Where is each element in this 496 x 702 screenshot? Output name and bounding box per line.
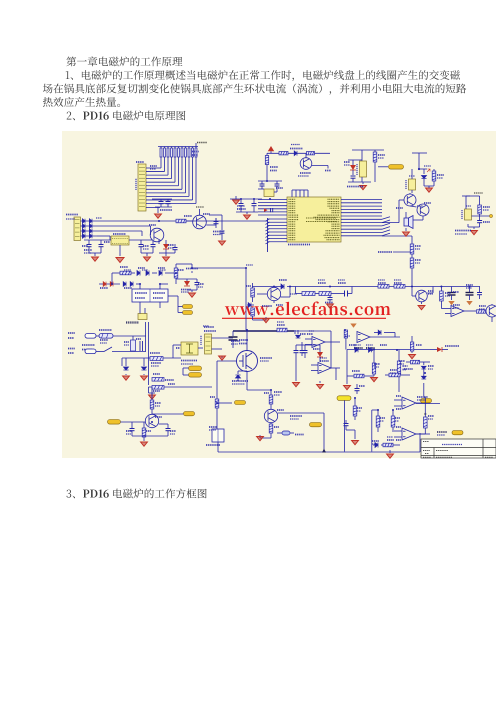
label R42 [395,417,400,419]
label buzzer U3 [405,180,407,189]
MOV RV1 [131,340,136,351]
connector CN2 [138,164,146,211]
diode D3 1N4148 [294,151,297,156]
capacitor C16 [221,215,223,230]
label Q7 blue [262,305,272,307]
transformer T1 vertical bars [140,341,143,351]
diode D13 [131,272,135,274]
capacitor C27 [356,384,358,388]
label D16 [100,287,108,289]
label U6D blue [320,360,329,362]
label D23 [279,279,287,281]
wire K1 extension to MCU bus [189,220,268,222]
label DB1 plus [176,347,180,349]
label C17 [198,283,204,285]
MCU U1 HT46R12A [287,197,341,242]
label R13 [184,215,192,217]
wire top net [347,349,366,351]
title block texts [423,441,429,443]
capacitor C20 electrolytic [451,287,453,293]
label C27 [359,385,365,387]
resistor R40 [353,406,357,416]
transistor Q5 [150,228,164,242]
capacitor C15 [215,218,217,221]
label R25 [394,282,402,284]
wire sense row [315,286,480,288]
label FGA25N120 [232,380,248,382]
ground G15 [143,374,145,375]
IC U2 78L05 [111,236,129,245]
label pin numbers [307,333,313,335]
label C9 [483,221,490,223]
wire bus +300V bold [233,330,294,332]
label D26 [453,291,459,293]
connector J2 pill [85,349,96,354]
wire top rail [267,152,330,154]
value labels batch [291,144,300,146]
diode D28 [374,332,378,334]
label CN3 [66,214,78,216]
document subheading 3 [67,489,207,499]
resistor R43 [383,443,393,447]
label R16 [178,269,184,271]
label D4 [344,161,350,163]
wire Q6 collector [199,209,201,215]
wire net K3 [97,230,142,232]
transistor Q1 [300,158,312,170]
wire Q7 emitter [273,301,275,303]
wires reg cluster [467,224,469,227]
diode D21 [121,358,123,366]
wire +18V rail right [192,267,246,269]
capacitor C11 [100,240,102,244]
buzzer BZ1 [404,216,413,229]
label C22 [231,340,240,342]
ground G24 [260,437,271,439]
resistor R23 [319,292,331,296]
resistor R6 horizontal [307,152,315,155]
label comb RN1 [192,151,199,153]
capacitor C6 [253,199,255,203]
capacitor C7 [352,170,354,175]
pin stub diagonals [382,217,390,220]
IC U4 78L05 [465,209,472,220]
label Q1 [300,172,311,174]
MCU upper left pins [258,199,287,201]
resistor R19 [152,386,164,390]
capacitor C25 [131,422,133,428]
wire top rail T cluster [352,149,384,151]
ground G17 [253,319,266,321]
ground G19b orange [448,301,454,305]
wire gate network [217,402,232,404]
label C29 [428,415,434,417]
wire MCU pin to buzzer [382,222,399,224]
label U6A [453,304,460,306]
wire +V to buzzer cluster [418,153,420,169]
ground G19c orange [466,301,472,305]
label R38 [352,370,360,372]
label CN2 top [136,161,144,163]
label X1 [276,187,283,189]
label CN5 [200,335,202,345]
red diode D35 [437,347,442,352]
red diode D39 [317,352,323,357]
diode D23 on bus [252,286,281,288]
label T-sense [378,251,392,253]
label R26 [445,292,451,294]
op-amp U6A [451,306,464,317]
wire crystal junction) [266,180,268,182]
transistor Q3 [417,204,429,216]
MCU right pins [341,199,382,201]
label CN2 side [135,178,137,190]
ground G31 [319,381,321,383]
wire Q12 up [151,387,153,393]
ground G32 [409,355,416,359]
ground G9 under U2 [119,245,121,256]
pill label P5 [189,373,202,378]
pill label P3 [183,311,193,315]
ground G13 [187,289,197,291]
label U7A pins [396,395,401,397]
document paragraph line 3 [43,97,120,107]
MCU top pins [291,190,293,197]
label LM339 [417,396,428,398]
resistor R33 [269,424,273,433]
label D36 [428,365,434,367]
diode D24 D25 [248,303,251,308]
capacitor C30 [295,345,297,350]
vertical loop wire [371,410,373,452]
pill label P11 [452,431,463,435]
label D12 [168,244,174,246]
diode D36 [423,362,425,365]
document heading line 1 [66,56,182,66]
label +5V [197,142,207,144]
zener D12 red [163,244,169,249]
wire vertical x331 [330,331,332,368]
label X2 side [356,164,358,175]
title block table [421,439,496,458]
bridge rectifier DB1 [181,342,198,355]
label R35 [146,430,151,432]
wire to title block [419,433,421,452]
label C12 [143,245,149,247]
label Q5 [149,224,156,226]
ground G4 [362,182,364,184]
resistor R44 [477,310,486,313]
diode D4 red [350,165,356,170]
capacitor C9 [479,214,481,220]
label R41 [380,417,385,419]
label C10 [82,245,88,247]
label U4 side [461,210,463,219]
ground G25 [141,442,148,446]
resistor R4 vertical [265,156,268,165]
resistor R21 [251,308,255,316]
ground G14 under D21 [125,374,127,375]
wire +5V right top [465,196,467,205]
label Q2 [396,207,403,209]
crystal X1 [258,180,282,182]
wires buzzer cluster [423,183,425,186]
label C15 blue [213,231,224,233]
label F1 value [100,339,108,341]
label out blue [290,415,302,417]
label R20 [246,285,251,287]
label L net [168,383,175,385]
resistor R45 feedback [424,417,428,428]
wires up to T203 [145,322,147,352]
ground G7 [473,227,475,229]
transistor Q6 [193,215,207,229]
wire out right [472,215,493,217]
pill label P2 [183,305,193,309]
label R27 [415,245,421,247]
label R9v [437,174,444,176]
resistor R34 vertical [150,400,154,409]
connector J1 pill [85,334,96,339]
label R18 [153,373,160,375]
long wire net K1 [97,220,189,222]
label CT1 [209,426,217,428]
capacitor C28 [345,420,347,423]
capacitor C2 under CN2 [167,199,169,201]
pill label P8 [108,420,121,425]
junction dots [158,220,160,222]
ground G12 [221,238,223,240]
wires from U5 [139,284,141,289]
label R34 [155,402,161,404]
ground G8 [94,253,96,256]
wire comparators net [416,403,440,405]
label NTC value [151,362,161,364]
wires CN2 to RN1 staircase [160,157,162,168]
diode D18 D19 blue [123,282,126,287]
wire U6D feedback [335,368,337,380]
diode D20 down red [186,279,188,284]
label RV1 [124,341,129,343]
pill label P1 [389,165,404,170]
capacitor C13 [152,240,154,244]
transistor Q2 [404,194,416,206]
resistor R32 [269,395,273,404]
label U6B [313,348,320,350]
diode D38 [375,442,378,447]
wire divider junction [411,251,413,253]
resistor R5 horizontal [279,152,288,155]
lower branch loop [295,287,297,294]
wire R7 to block [374,166,376,182]
label Q9 [428,290,434,292]
resistor R27 [410,244,414,254]
long wire net K2 [97,225,151,227]
resistor R7 [374,150,376,152]
capacitor C21 [479,287,481,293]
label R19 [153,390,160,392]
diode D31 D32 [355,347,358,352]
label +5V right [474,192,483,194]
resistor R46 vertical [410,342,413,351]
wire bottom bus [217,442,219,452]
capacitor C32 under D27 [301,342,303,350]
ground G23 top [221,356,223,358]
capacitor C18b hbars [345,291,348,297]
fuse F1 [99,334,113,339]
capacitor C20b electrolytic [469,287,471,293]
switch SW1 [96,351,104,353]
IC U3 driver [409,179,416,190]
capacitor C5 electrolytic [230,198,262,200]
wire IGBT emitter down [246,372,248,391]
ground G30 [293,383,300,387]
capacitor C24 pill blue [282,431,290,435]
IC X2 ceramic resonator [360,161,367,177]
label R7v [378,154,385,156]
resistor R35 [142,428,146,437]
capacitor C14 [174,244,176,247]
document paragraph line 2 [43,84,466,95]
ground G10 [146,253,148,256]
capacitor C26 [167,424,169,428]
resistor network RN1 [160,148,162,157]
ground G2 red arrow [235,196,237,199]
resistor R29 [277,328,287,332]
wire Q11 to out [278,412,324,414]
transistor Q11 [264,409,277,422]
label C1 C2 [160,209,172,211]
op-amp U6C [357,332,370,343]
wires around U2 [84,239,111,241]
label +18V [186,268,198,270]
watermark underline [222,317,386,319]
diode D37 [421,376,426,379]
IGBT Q10 [237,351,258,372]
resistor R15 [112,272,120,274]
diode D27 [294,330,296,334]
transistor Q12 [145,414,158,427]
label U1 type [288,244,310,246]
label R22 [318,282,326,284]
pill label P9 [184,412,195,416]
connector CN4 [138,314,147,320]
op-amp U6B [312,337,325,348]
power flag +5V red arrow [268,146,274,151]
label R39 [390,369,397,371]
label Q6 [203,213,210,215]
ground G6 under buzzer [405,228,407,231]
comparator U7A LM339 [402,397,416,409]
resistor R26 vertical right [440,291,444,301]
comparator U7B LM339 [402,428,416,440]
document subheading 2 [67,111,186,121]
document paragraph line 1 [66,70,460,81]
connector CN3 [74,217,81,241]
ground G1 [157,207,159,213]
red diode on pin row [264,208,268,212]
label R24 [378,282,386,284]
wire fuse to node [96,335,99,337]
wire junction [111,273,113,284]
label D31 [349,344,356,346]
label T1 [136,338,141,340]
resistor R24 [378,285,389,289]
label N m blue [354,347,363,349]
label R40 [357,407,362,409]
label 220V AC input [82,344,95,346]
label C25 [126,430,132,432]
label D13D14 [138,267,145,269]
resistor R37 [397,361,400,374]
op-amp U6D [318,363,331,374]
wire IGBT gate left [217,360,237,362]
capacitor C31 [304,345,306,350]
diode D22 [141,367,146,370]
resistor R31 vertical [215,399,219,408]
label R11 [483,206,490,208]
ground G22b orange [350,324,356,328]
driver block U5 [132,289,168,302]
ground G26 [371,378,378,382]
resistor R25 [394,285,405,289]
connector CN5 mains out [205,334,212,354]
wire sense down [148,387,150,393]
diode D15 [152,272,157,274]
resistor R22 [302,292,315,296]
wire net K4 [97,235,110,237]
resistor R18 [152,378,164,382]
capacitor C17 [196,279,198,282]
resistor R13 [176,219,186,223]
diode matrix D6-D13 [81,220,98,222]
wire P12 down to bus [344,400,346,451]
transistor Q7 [267,287,280,300]
pill label P10 [421,399,432,403]
ground G28 [354,430,356,439]
pill label P4 [189,366,202,371]
resistor R28 [410,258,414,268]
resistor R38 horizontal [354,374,364,378]
label R4 values [270,166,278,168]
wire right edge [491,304,493,305]
label R28 [415,259,421,261]
label OSC blue [347,186,363,188]
label 1N4148 [290,148,303,150]
pill label P12 left [337,396,351,401]
label blue under reg [455,230,471,232]
label C20C21 [466,284,473,286]
label D20 blue [181,289,191,291]
label R15 [120,266,128,268]
label IGBT gate R31 [210,396,215,398]
wire 18V to driver [245,268,247,330]
label D38 [372,440,379,442]
label R43 [387,439,394,441]
label R23 [338,282,346,284]
ground G5 [426,188,433,192]
wire MCU pin to divider [382,235,412,237]
schematic background [62,131,496,458]
red diode pair D16 D17 [99,283,120,285]
wire CN2 pin 12 [146,207,160,209]
label D27 [300,333,306,335]
wire left drop [346,350,348,375]
ground G27 left [346,374,348,384]
label DB1 blue [181,360,197,362]
wire +5V bus above RN1 [158,146,198,148]
capacitor C1 under CN2 [152,198,172,200]
